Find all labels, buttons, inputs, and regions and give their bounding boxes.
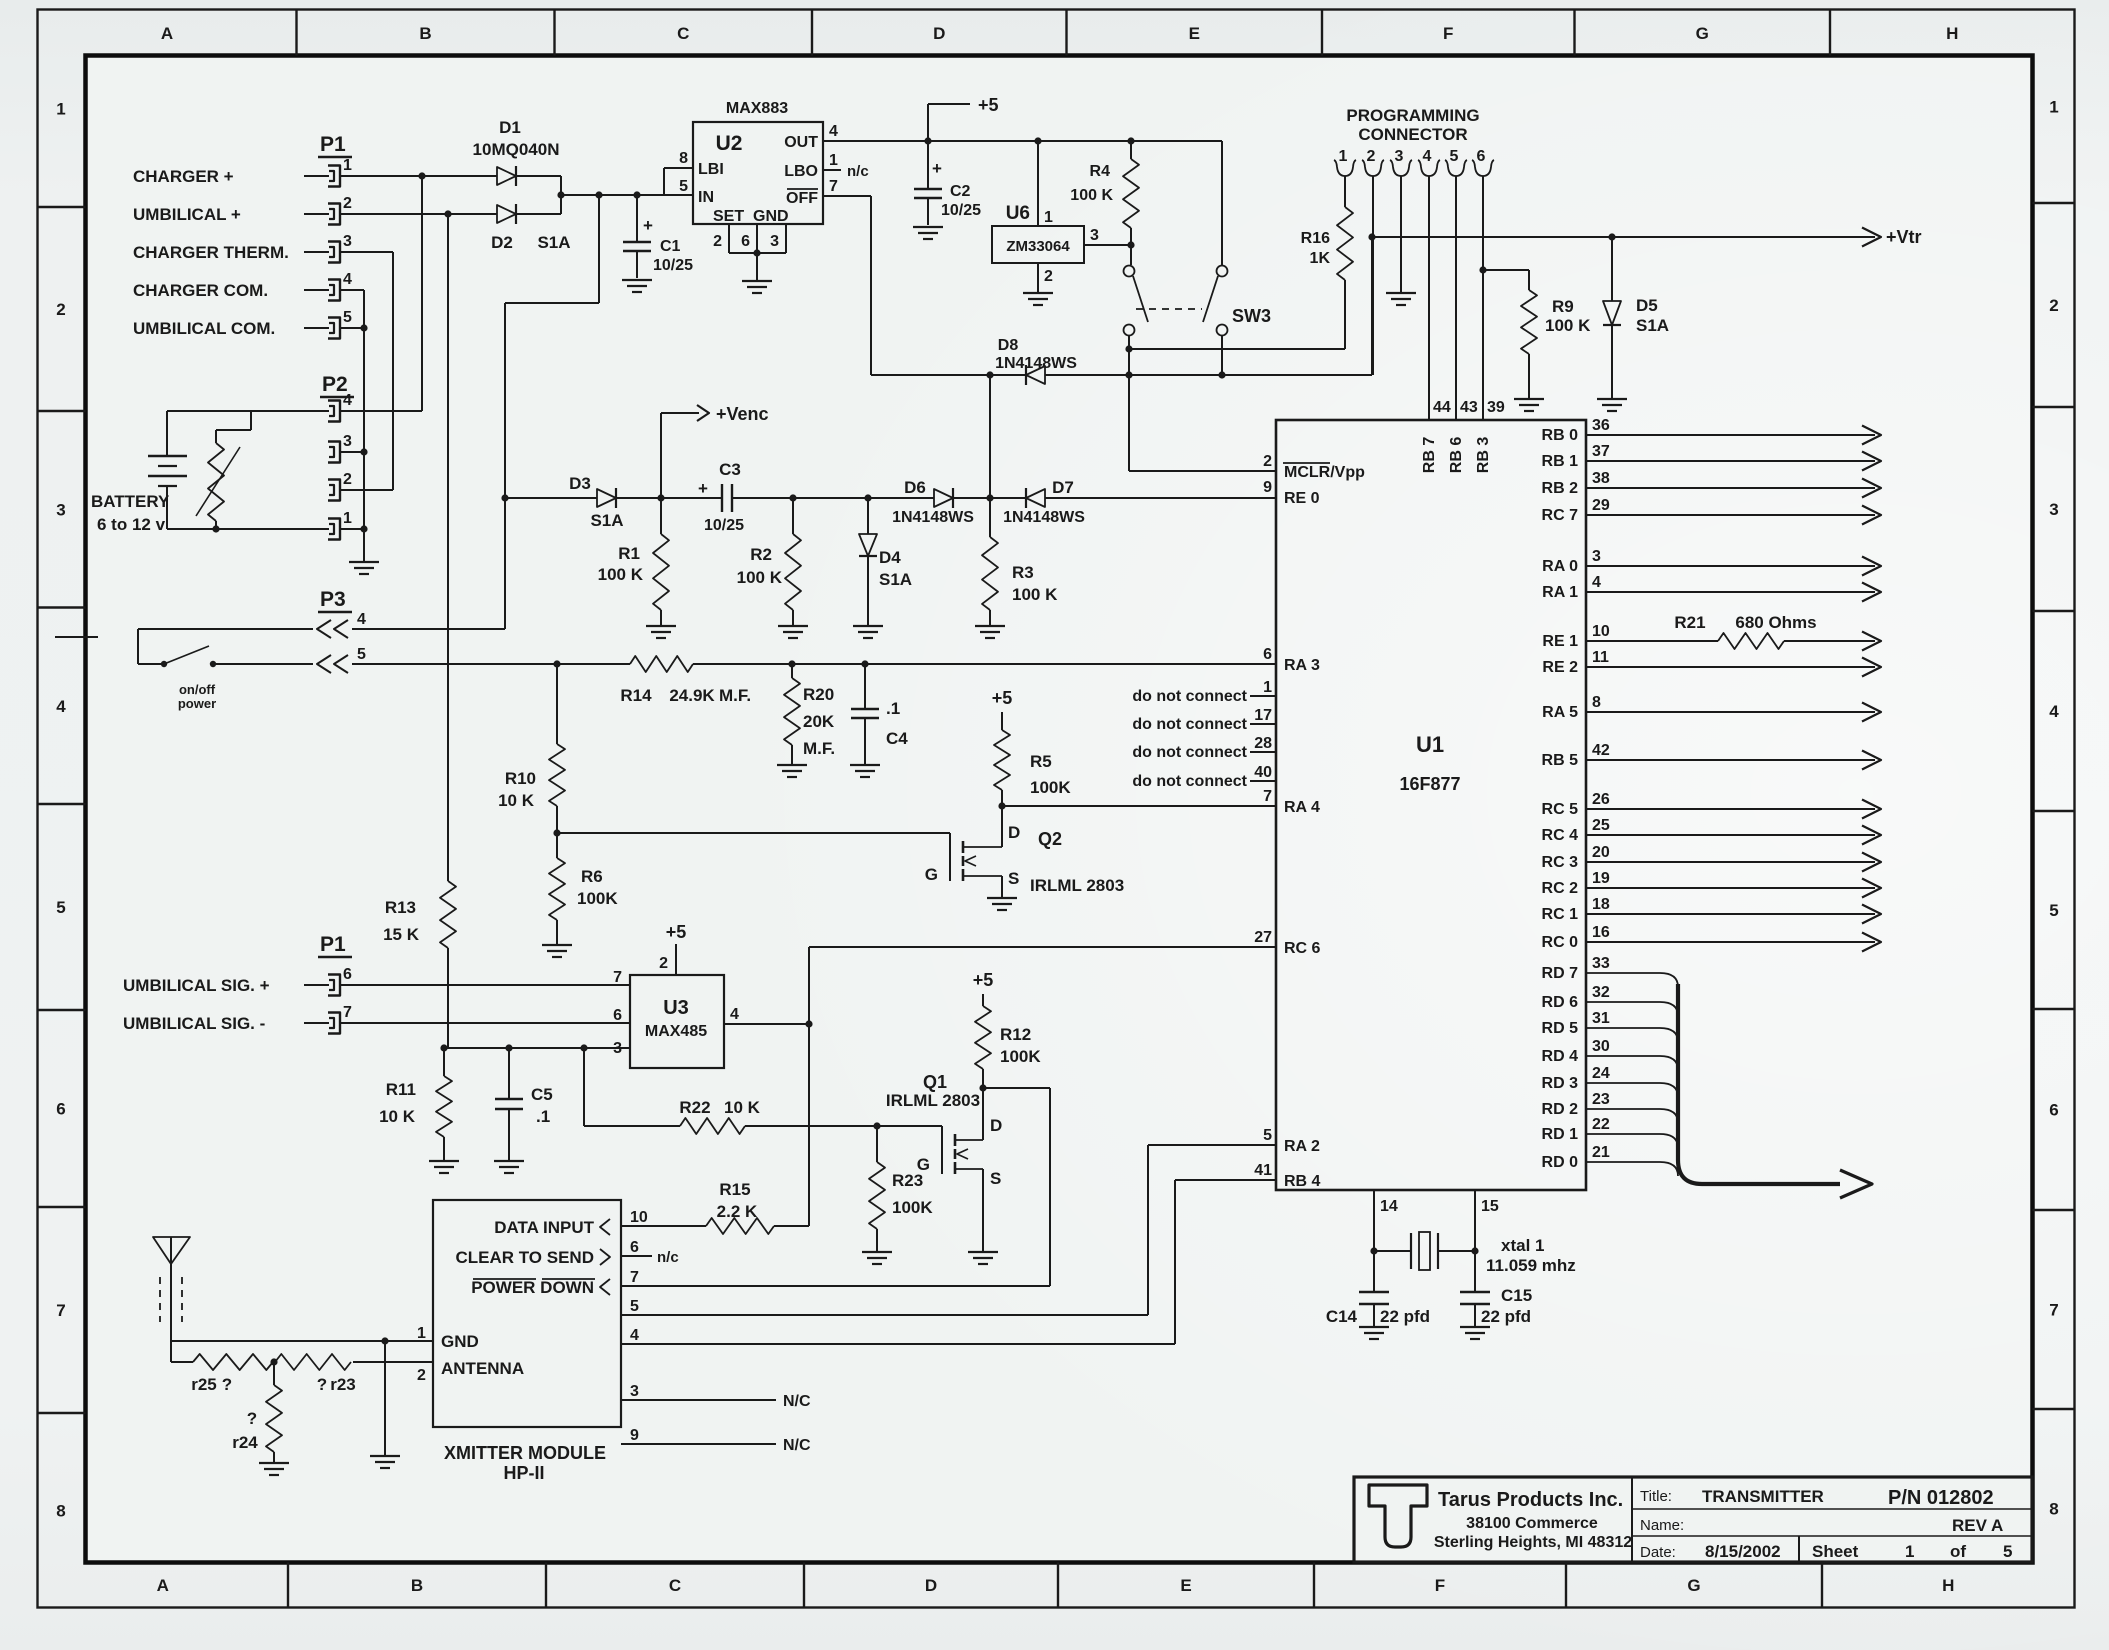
svg-text:TRANSMITTER: TRANSMITTER [1702,1487,1824,1506]
svg-text:28: 28 [1254,735,1272,752]
svg-text:.1: .1 [536,1107,550,1126]
svg-text:P3: P3 [320,588,346,611]
svg-text:RB 0: RB 0 [1542,427,1579,444]
svg-text:17: 17 [1254,707,1272,724]
wire node up to D8 net [989,375,991,498]
svg-text:RC 0: RC 0 [1542,934,1579,951]
svg-text:7: 7 [613,969,622,986]
U3 MAX485 [630,975,724,1068]
ground R3 [975,626,1005,638]
svg-text:RD 1: RD 1 [1542,1126,1579,1143]
svg-text:HP-II: HP-II [503,1463,544,1483]
title block [1354,1477,2032,1562]
power +5 flag [928,95,999,141]
svg-text:8: 8 [679,150,688,167]
programming connector pin 1 [1334,148,1356,176]
wire RB4 to xmitter pin4 [621,1180,1276,1344]
ground C4 [850,765,880,777]
svg-text:S: S [990,1169,1001,1188]
svg-text:4: 4 [343,392,352,409]
ground C15 [1460,1327,1490,1339]
svg-text:7: 7 [1263,788,1272,805]
programming connector label [1346,106,1479,144]
svg-text:ZM33064: ZM33064 [1006,238,1070,255]
wire R22 to Q1 gate [745,1125,942,1127]
resistor R4 [1070,141,1139,265]
xmitter GND pin 1 [385,1325,479,1351]
svg-text:CHARGER THERM.: CHARGER THERM. [133,243,289,262]
wire U2 bottom pins 2 6 3 [713,224,786,253]
node junction D3 tap [501,494,508,501]
svg-text:8: 8 [56,1501,65,1520]
xmitter pin 3 NC [621,1383,811,1410]
svg-text:2: 2 [417,1367,426,1384]
wire D3 anode [505,497,597,499]
svg-text:R14: R14 [620,686,652,705]
svg-text:R5: R5 [1030,752,1052,771]
node R1 tap [657,494,664,501]
wire P1-1 to D1 [341,175,497,177]
svg-text:M.F.: M.F. [803,739,835,758]
svg-text:RD 2: RD 2 [1542,1101,1579,1118]
svg-text:6: 6 [56,1100,65,1119]
svg-text:R3: R3 [1012,563,1034,582]
svg-text:6: 6 [613,1007,622,1024]
svg-text:R6: R6 [581,867,603,886]
svg-text:R21: R21 [1674,613,1705,632]
svg-text:100 K: 100 K [737,568,783,587]
wire prog pin6 RB3 [1482,176,1484,420]
wire U3 pin4 [724,1006,809,1024]
capacitor C5 [495,1048,553,1160]
svg-text:C4: C4 [886,729,908,748]
svg-text:33: 33 [1592,955,1610,972]
svg-text:3: 3 [1090,227,1099,244]
sheet edge tick [55,636,98,638]
wire OFF to D8 [871,374,1026,376]
svg-text:MAX883: MAX883 [726,100,788,117]
ground R11 [429,1161,459,1173]
svg-text:D8: D8 [998,337,1019,354]
resistor R1 [598,498,669,625]
svg-text:C: C [669,1576,681,1595]
svg-text:UMBILICAL +: UMBILICAL + [133,205,241,224]
svg-text:r23: r23 [330,1375,356,1394]
svg-text:RD 3: RD 3 [1542,1075,1579,1092]
svg-text:3: 3 [2049,500,2058,519]
svg-text:?: ? [222,1375,232,1394]
wire D8 to prog pin2 [1045,237,1372,375]
pin3 label U3 [613,1040,622,1057]
svg-text:D4: D4 [879,548,901,567]
U1 do-not-connect pin 17 [1132,707,1276,733]
battery BT1 [148,411,187,529]
node R10/R6 junction [553,829,560,836]
svg-text:15 K: 15 K [383,925,420,944]
ground R20 [777,765,807,777]
svg-text:10/25: 10/25 [941,202,981,219]
crystal xtal1 [1374,1232,1576,1275]
programming connector pin 6 [1472,148,1494,176]
svg-text:38: 38 [1592,470,1610,487]
svg-text:1: 1 [56,99,65,118]
svg-text:S1A: S1A [1636,316,1669,335]
node R2 tap [789,494,796,501]
ground C1 [622,280,652,292]
node U6 pin1 tap [1034,137,1041,144]
svg-text:100K: 100K [1000,1047,1041,1066]
svg-text:RB 6: RB 6 [1448,437,1465,474]
capacitor C4 [851,664,908,764]
ground D4 [853,626,883,638]
svg-text:S1A: S1A [537,233,570,252]
node R4 top tap [1127,137,1134,144]
svg-text:100K: 100K [892,1198,933,1217]
svg-text:OUT: OUT [784,134,818,151]
svg-text:D6: D6 [904,478,926,497]
U1 pin RB 1 (37) with output arrow [1542,443,1881,471]
svg-text:RA 0: RA 0 [1542,558,1578,575]
svg-text:C5: C5 [531,1085,553,1104]
node thermistor bottom [212,525,219,532]
node junction common P2-3 [360,448,367,455]
wire U3 pin3 [444,1047,630,1049]
svg-text:D3: D3 [569,474,591,493]
svg-text:H: H [1942,1576,1954,1595]
programming connector pin 4 [1418,148,1440,176]
node +Vtr tee [1368,233,1375,240]
svg-text:n/c: n/c [657,1249,679,1266]
svg-text:10/25: 10/25 [653,257,693,274]
IC U2 MAX883 regulator [693,100,823,225]
xmitter ANTENNA pin 2 [353,1359,524,1384]
resistor R13 [383,214,456,1048]
diode D4 zener [859,498,912,625]
svg-text:P/N 012802: P/N 012802 [1888,1487,1994,1509]
svg-text:RC 5: RC 5 [1542,801,1579,818]
svg-text:LBO: LBO [784,163,818,180]
svg-text:RC 2: RC 2 [1542,880,1579,897]
svg-text:RB 2: RB 2 [1542,480,1579,497]
svg-text:G: G [1687,1576,1700,1595]
svg-text:100 K: 100 K [1012,585,1058,604]
svg-text:G: G [1696,24,1709,43]
svg-text:2: 2 [2049,296,2058,315]
U1 pin RD 6 (32) into bus [1542,984,1678,1016]
svg-text:7: 7 [829,178,838,195]
wire battery top [167,410,329,412]
svg-text:20K: 20K [803,712,835,731]
connector P2 pin 1 [328,510,352,540]
svg-text:1: 1 [343,157,352,174]
resistor R23 [869,1126,933,1251]
svg-text:100 K: 100 K [1070,187,1113,204]
node D4 tap [864,494,871,501]
svg-text:2: 2 [343,471,352,488]
wire +Vtr [1372,236,1875,238]
node pin3/R22 [580,1044,587,1051]
transistor Q1 IRLML2803 [886,1072,1002,1252]
node U2 gnd junction [753,249,760,256]
svg-text:6: 6 [2049,1101,2058,1120]
svg-text:?: ? [247,1409,257,1428]
svg-text:5: 5 [1263,1127,1272,1144]
node Vin tap [557,191,564,198]
U1 pin RA 5 (8) with output arrow [1542,694,1881,722]
svg-text:23: 23 [1592,1091,1610,1108]
wire U3.3 down to R22 [584,1048,680,1126]
svg-text:10 K: 10 K [498,791,535,810]
svg-text:R11: R11 [386,1080,416,1099]
svg-text:RD 6: RD 6 [1542,994,1579,1011]
svg-text:3: 3 [770,233,779,250]
svg-text:R1: R1 [618,544,640,563]
svg-text:7: 7 [2049,1301,2058,1320]
svg-text:10/25: 10/25 [704,517,744,534]
svg-text:RA 5: RA 5 [1542,704,1578,721]
node xtal left [1370,1247,1377,1254]
svg-text:10MQ040N: 10MQ040N [473,140,560,159]
svg-text:do not connect: do not connect [1132,716,1247,733]
wire Vin down-loop to P3-4 rail [505,195,599,629]
svg-text:D: D [925,1576,937,1595]
svg-text:ANTENNA: ANTENNA [441,1359,524,1378]
xmitter pin 5 [630,1298,639,1315]
resistor r23 [275,1354,356,1394]
svg-text:2: 2 [1263,453,1272,470]
svg-text:XMITTER MODULE: XMITTER MODULE [444,1443,606,1463]
U1 pin RD 0 (21) into bus [1542,1144,1678,1176]
svg-text:RB 3: RB 3 [1475,437,1492,474]
node xmitter gnd [381,1337,388,1344]
svg-text:M.F.: M.F. [719,686,751,705]
node junction P1-1 / P2-4 [418,172,425,179]
wire P1-4 common rail [341,290,364,562]
node junction C1 tap [633,191,640,198]
node D6/D7/R3 junction [986,494,993,501]
svg-text:4: 4 [357,611,366,628]
svg-text:C1: C1 [660,238,681,255]
wire U2 pin8 LBI jog [664,150,693,195]
svg-text:D5: D5 [1636,296,1658,315]
node D8/SW3 right junction [1218,371,1225,378]
wire R14 to RA3 [693,663,1276,665]
svg-text:S1A: S1A [590,511,623,530]
svg-text:do not connect: do not connect [1132,688,1247,705]
diode D8 label [995,337,1077,372]
U1 pin RE0 [1263,479,1320,507]
svg-text:REV A: REV A [1952,1516,2003,1535]
svg-text:E: E [1180,1576,1191,1595]
svg-text:C14: C14 [1326,1307,1358,1326]
svg-text:9: 9 [630,1427,639,1444]
wire U2 pin1 LBO n/c [823,152,869,180]
U1 pin RD 5 (31) into bus [1542,1010,1678,1042]
node junction P1-2 / UMBILICAL+ [444,210,451,217]
wire P1-2 to D2 [341,213,497,215]
connector P3 label [318,588,352,612]
pin7 label U3 [613,969,622,986]
wire U6 pin2 [1038,263,1053,292]
svg-text:1: 1 [829,152,838,169]
svg-text:3: 3 [343,233,352,250]
svg-text:4: 4 [56,697,66,716]
svg-text:C2: C2 [950,183,971,200]
pin 5 label U2 IN [679,178,688,195]
svg-text:6 to 12 v: 6 to 12 v [97,515,166,534]
switch on/off power [138,646,313,667]
wire C3 to D6 [732,497,934,499]
svg-text:100K: 100K [1030,778,1071,797]
svg-text:R16: R16 [1301,230,1330,247]
wire U2 gnd lead [756,253,758,280]
svg-text:8: 8 [2049,1499,2058,1518]
svg-text:4: 4 [1423,148,1432,165]
svg-text:R12: R12 [1000,1025,1031,1044]
svg-text:1K: 1K [1310,250,1331,267]
transistor Q2 IRLML2803 [925,806,1124,897]
svg-text:E: E [1189,24,1200,43]
capacitor C14 [1326,1251,1430,1326]
U1 do-not-connect pin 28 [1132,735,1276,761]
wire gate Q2 [557,832,950,834]
wire U1 pin15 [1475,1190,1499,1251]
capacitor C15 [1460,1251,1532,1326]
svg-text:CHARGER COM.: CHARGER COM. [133,281,268,300]
programming connector pin 3 [1390,148,1412,176]
svg-text:40: 40 [1254,764,1272,781]
pin6 label U3 [613,1007,622,1024]
svg-text:RC 7: RC 7 [1542,507,1579,524]
resistor R3 [982,498,1058,625]
wire P3-5 to R14 [352,663,630,665]
svg-text:+: + [698,479,708,498]
svg-text:?: ? [317,1375,327,1394]
ground R1 [646,626,676,638]
connector P1 pin 4 [133,271,352,301]
connector P1 pin 3 [133,233,352,263]
diode D2 [497,204,516,224]
ground C5 [494,1161,524,1173]
connector P2 label [320,373,354,397]
connector P1 (lower) label [318,933,352,957]
svg-text:24: 24 [1592,1065,1610,1082]
ground D5 [1597,399,1627,411]
svg-text:.1: .1 [886,699,900,718]
svg-text:5: 5 [679,178,688,195]
svg-text:RB 4: RB 4 [1284,1173,1321,1190]
U1 pin RC 3 (20) with output arrow [1542,844,1881,872]
svg-text:SET: SET [713,208,744,225]
svg-text:R13: R13 [385,898,416,917]
svg-text:R15: R15 [719,1180,750,1199]
svg-text:1N4148WS: 1N4148WS [892,509,974,526]
svg-text:100 K: 100 K [1545,316,1591,335]
wire U1 pin14 [1374,1190,1398,1251]
xmitter module box [433,1200,621,1483]
svg-text:RD 4: RD 4 [1542,1048,1579,1065]
U1 pin RD 1 (22) into bus [1542,1116,1678,1148]
U1 pin RC 0 (16) with output arrow [1542,924,1881,952]
wire battery bottom [167,528,329,530]
node prog pin6 / R9 [1479,266,1486,273]
svg-text:1: 1 [417,1325,426,1342]
antenna [153,1237,190,1341]
wire MCLR to U1 [1129,470,1276,472]
wire RA2 to xmitter pin5 [621,1145,1276,1315]
U1 pin RD 7 (33) into bus [1542,955,1678,987]
svg-text:r25: r25 [191,1375,217,1394]
wire P1-5 stub [341,327,364,329]
svg-text:RC 6: RC 6 [1284,940,1321,957]
svg-text:G: G [925,865,938,884]
connector P1 pin 5 [133,309,352,339]
svg-text:+5: +5 [973,970,994,990]
diode D5 [1603,237,1669,398]
ground U6 [1023,293,1053,305]
ground Q1 source [968,1252,998,1264]
U1 pin RD 2 (23) into bus [1542,1091,1678,1123]
svg-text:BATTERY: BATTERY [91,492,170,511]
svg-text:1: 1 [1044,209,1053,226]
svg-text:6: 6 [630,1239,639,1256]
svg-text:4: 4 [2049,702,2059,721]
svg-text:U1: U1 [1416,732,1444,757]
svg-text:GND: GND [753,208,789,225]
svg-text:1N4148WS: 1N4148WS [1003,509,1085,526]
capacitor C3 (series) [698,460,744,534]
svg-text:11.059 mhz: 11.059 mhz [1486,1256,1576,1275]
svg-text:2: 2 [1367,148,1376,165]
wire CHARGER+ down to P2-4 [421,176,423,411]
svg-text:6: 6 [1263,646,1272,663]
svg-text:6: 6 [1477,148,1486,165]
svg-text:SW3: SW3 [1232,306,1271,326]
svg-text:2: 2 [1044,268,1053,285]
capacitor C1 [623,195,693,278]
svg-text:22: 22 [1592,1116,1610,1133]
svg-text:B: B [419,24,431,43]
svg-text:Tarus Products Inc.: Tarus Products Inc. [1438,1489,1623,1511]
IC U6 ZM33064 supervisor [992,203,1084,263]
svg-text:U3: U3 [663,997,689,1019]
svg-text:n/c: n/c [847,163,869,180]
switch label [178,682,216,711]
wire U2 pin4 OUT [823,123,928,141]
svg-text:3: 3 [56,500,65,519]
ground C2 [913,227,943,239]
svg-text:8/15/2002: 8/15/2002 [1705,1542,1781,1561]
svg-text:6: 6 [343,966,352,983]
svg-text:5: 5 [2049,901,2058,920]
wire D7 to RE0 [1045,497,1276,499]
resistor R5 [994,730,1071,806]
U1 pin RA3 [1263,646,1320,674]
svg-text:4: 4 [1592,574,1601,591]
svg-text:OFF: OFF [786,190,818,207]
svg-text:S: S [1008,869,1019,888]
resistor R2 [737,498,801,625]
U1 pin RC 7 (29) with output arrow [1542,497,1881,525]
svg-text:IRLML 2803: IRLML 2803 [1030,876,1124,895]
ground R23 [862,1252,892,1264]
svg-text:6: 6 [741,233,750,250]
resistor R12 [975,1006,1041,1088]
svg-text:3: 3 [1395,148,1404,165]
svg-text:8: 8 [1592,694,1601,711]
svg-text:RB 7: RB 7 [1421,437,1438,474]
svg-text:21: 21 [1592,1144,1610,1161]
